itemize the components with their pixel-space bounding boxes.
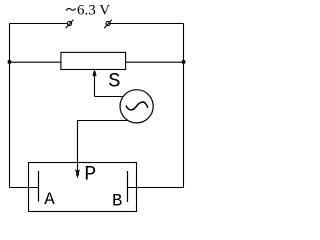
svg-text:S: S (108, 71, 120, 94)
tube box (29, 163, 137, 212)
wire left lead (10, 61, 62, 63)
junction right node (182, 60, 185, 63)
junction left node (8, 60, 11, 63)
arrow into plate P (75, 169, 80, 176)
wire top left (10, 23, 68, 25)
potentiometer S body (61, 52, 126, 69)
supply label ~6.3 V (66, 8, 76, 10)
terminal right (104, 20, 112, 29)
wire source to plate P (78, 121, 130, 178)
wire right lead (125, 61, 184, 63)
plate B (127, 171, 129, 202)
plate A (38, 171, 40, 202)
svg-text:A: A (44, 191, 55, 210)
svg-text:B: B (112, 192, 122, 211)
svg-text:P: P (84, 163, 96, 186)
wire wiper to source (95, 96, 126, 98)
wire to plate B (128, 187, 184, 189)
wiper arrow (92, 70, 97, 97)
wire right side (183, 24, 185, 188)
wire left side (9, 24, 11, 188)
AC source (120, 90, 153, 123)
wire top right (110, 23, 183, 25)
terminal left (66, 20, 74, 29)
wire to plate A (10, 187, 39, 189)
svg-text:6.3 V: 6.3 V (77, 3, 110, 19)
